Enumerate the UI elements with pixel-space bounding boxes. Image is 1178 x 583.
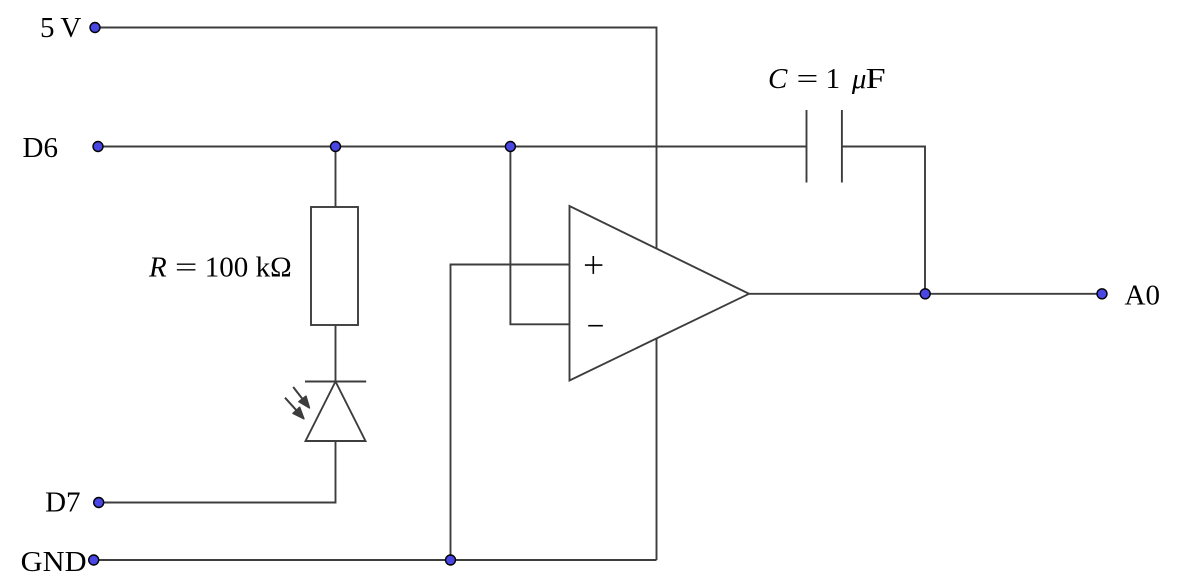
svg-text:GND: GND xyxy=(21,546,87,578)
wire D6 junction down to op-amp - input xyxy=(510,147,569,325)
photodiode triangle xyxy=(306,382,366,442)
capacitor C right plate xyxy=(841,110,843,183)
light arrow lower xyxy=(285,398,304,419)
wire D6 rail to capacitor left plate xyxy=(98,146,807,148)
wire D6 junction down to resistor R xyxy=(335,147,337,208)
node A0 xyxy=(1097,289,1107,299)
junction D6-inverting input xyxy=(505,142,515,152)
wire GND rail xyxy=(94,559,657,561)
svg-text:C=1μF: C=1μF xyxy=(768,63,886,95)
op-amp - input symbol xyxy=(588,325,603,327)
wire op-amp output to A0 xyxy=(749,293,1102,295)
wire 5V rail: from 5V node right then down behind op-amp to GND corner xyxy=(95,28,657,561)
capacitor C left plate xyxy=(806,110,808,183)
svg-text:A0: A0 xyxy=(1125,279,1160,311)
svg-text:D7: D7 xyxy=(45,486,80,518)
svg-text:D6: D6 xyxy=(23,132,58,164)
node 5V xyxy=(90,23,100,33)
op-amp + input symbol xyxy=(585,256,603,274)
node GND xyxy=(89,555,99,565)
wire GND junction up to op-amp + input xyxy=(451,265,570,561)
wire resistor bottom to photodiode xyxy=(335,325,337,382)
resistor R = 100 kOhm xyxy=(311,207,358,325)
light arrow upper xyxy=(293,387,309,408)
node D6 xyxy=(93,142,103,152)
photodiode cathode bar xyxy=(305,381,366,383)
wire photodiode anode down then left to D7 node xyxy=(99,441,336,503)
op-amp U1 triangle xyxy=(570,206,750,381)
svg-text:5 V: 5 V xyxy=(40,12,81,44)
junction D6-resistor xyxy=(331,142,341,152)
junction output-capacitor xyxy=(920,289,930,299)
node D7 xyxy=(94,498,104,508)
junction GND-noninverting input xyxy=(446,555,456,565)
wire capacitor right plate to output junction xyxy=(842,147,925,294)
